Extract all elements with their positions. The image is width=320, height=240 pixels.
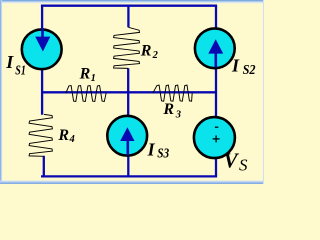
svg-text:I: I (147, 139, 156, 159)
wire right bottom stub (215, 158, 217, 176)
VS minus sign (215, 126, 218, 128)
svg-text:4: 4 (69, 134, 75, 145)
wire middle horizontal (42, 91, 216, 93)
wire top (41, 5, 217, 7)
svg-text:R: R (57, 127, 69, 144)
svg-text:R: R (79, 66, 91, 83)
frame left border (0, 0, 1, 184)
VS plus sign (213, 135, 220, 142)
svg-text:3: 3 (175, 110, 181, 121)
frame right border (263, 0, 264, 184)
wire middle vertical top stub (127, 6, 129, 28)
current source IS1 circle (22, 29, 62, 69)
svg-text:S1: S1 (15, 62, 25, 77)
svg-text:R: R (140, 42, 152, 59)
svg-text:S3: S3 (157, 146, 169, 161)
frame top border (0, 0, 264, 1)
resistor R2 zigzag (114, 27, 140, 68)
svg-text:S: S (239, 156, 248, 175)
current source IS2 circle (195, 28, 235, 68)
svg-text:R: R (162, 101, 174, 118)
frame bottom border (0, 181, 264, 182)
wire bottom (41, 175, 217, 177)
wire left (41, 6, 43, 115)
svg-text:I: I (231, 56, 240, 76)
IS1 arrow (down) (35, 28, 50, 52)
resistor R1 zigzag (66, 86, 106, 102)
svg-text:S2: S2 (243, 62, 256, 77)
IS3 arrow (up) (120, 127, 134, 155)
svg-text:V: V (224, 149, 240, 173)
svg-text:2: 2 (152, 50, 159, 61)
svg-text:1: 1 (91, 73, 96, 84)
IS2 arrow (up) (208, 39, 223, 67)
svg-text:I: I (5, 52, 14, 72)
wire middle vertical center segment (127, 68, 129, 115)
voltage source VS circle (194, 117, 235, 158)
wire left bottom stub (43, 156, 45, 177)
wire right (215, 6, 217, 116)
wire middle vertical bottom stub (127, 157, 129, 177)
resistor R3 zigzag (153, 85, 192, 101)
current source IS3 circle (107, 116, 147, 156)
resistor R4 zigzag (29, 114, 52, 156)
